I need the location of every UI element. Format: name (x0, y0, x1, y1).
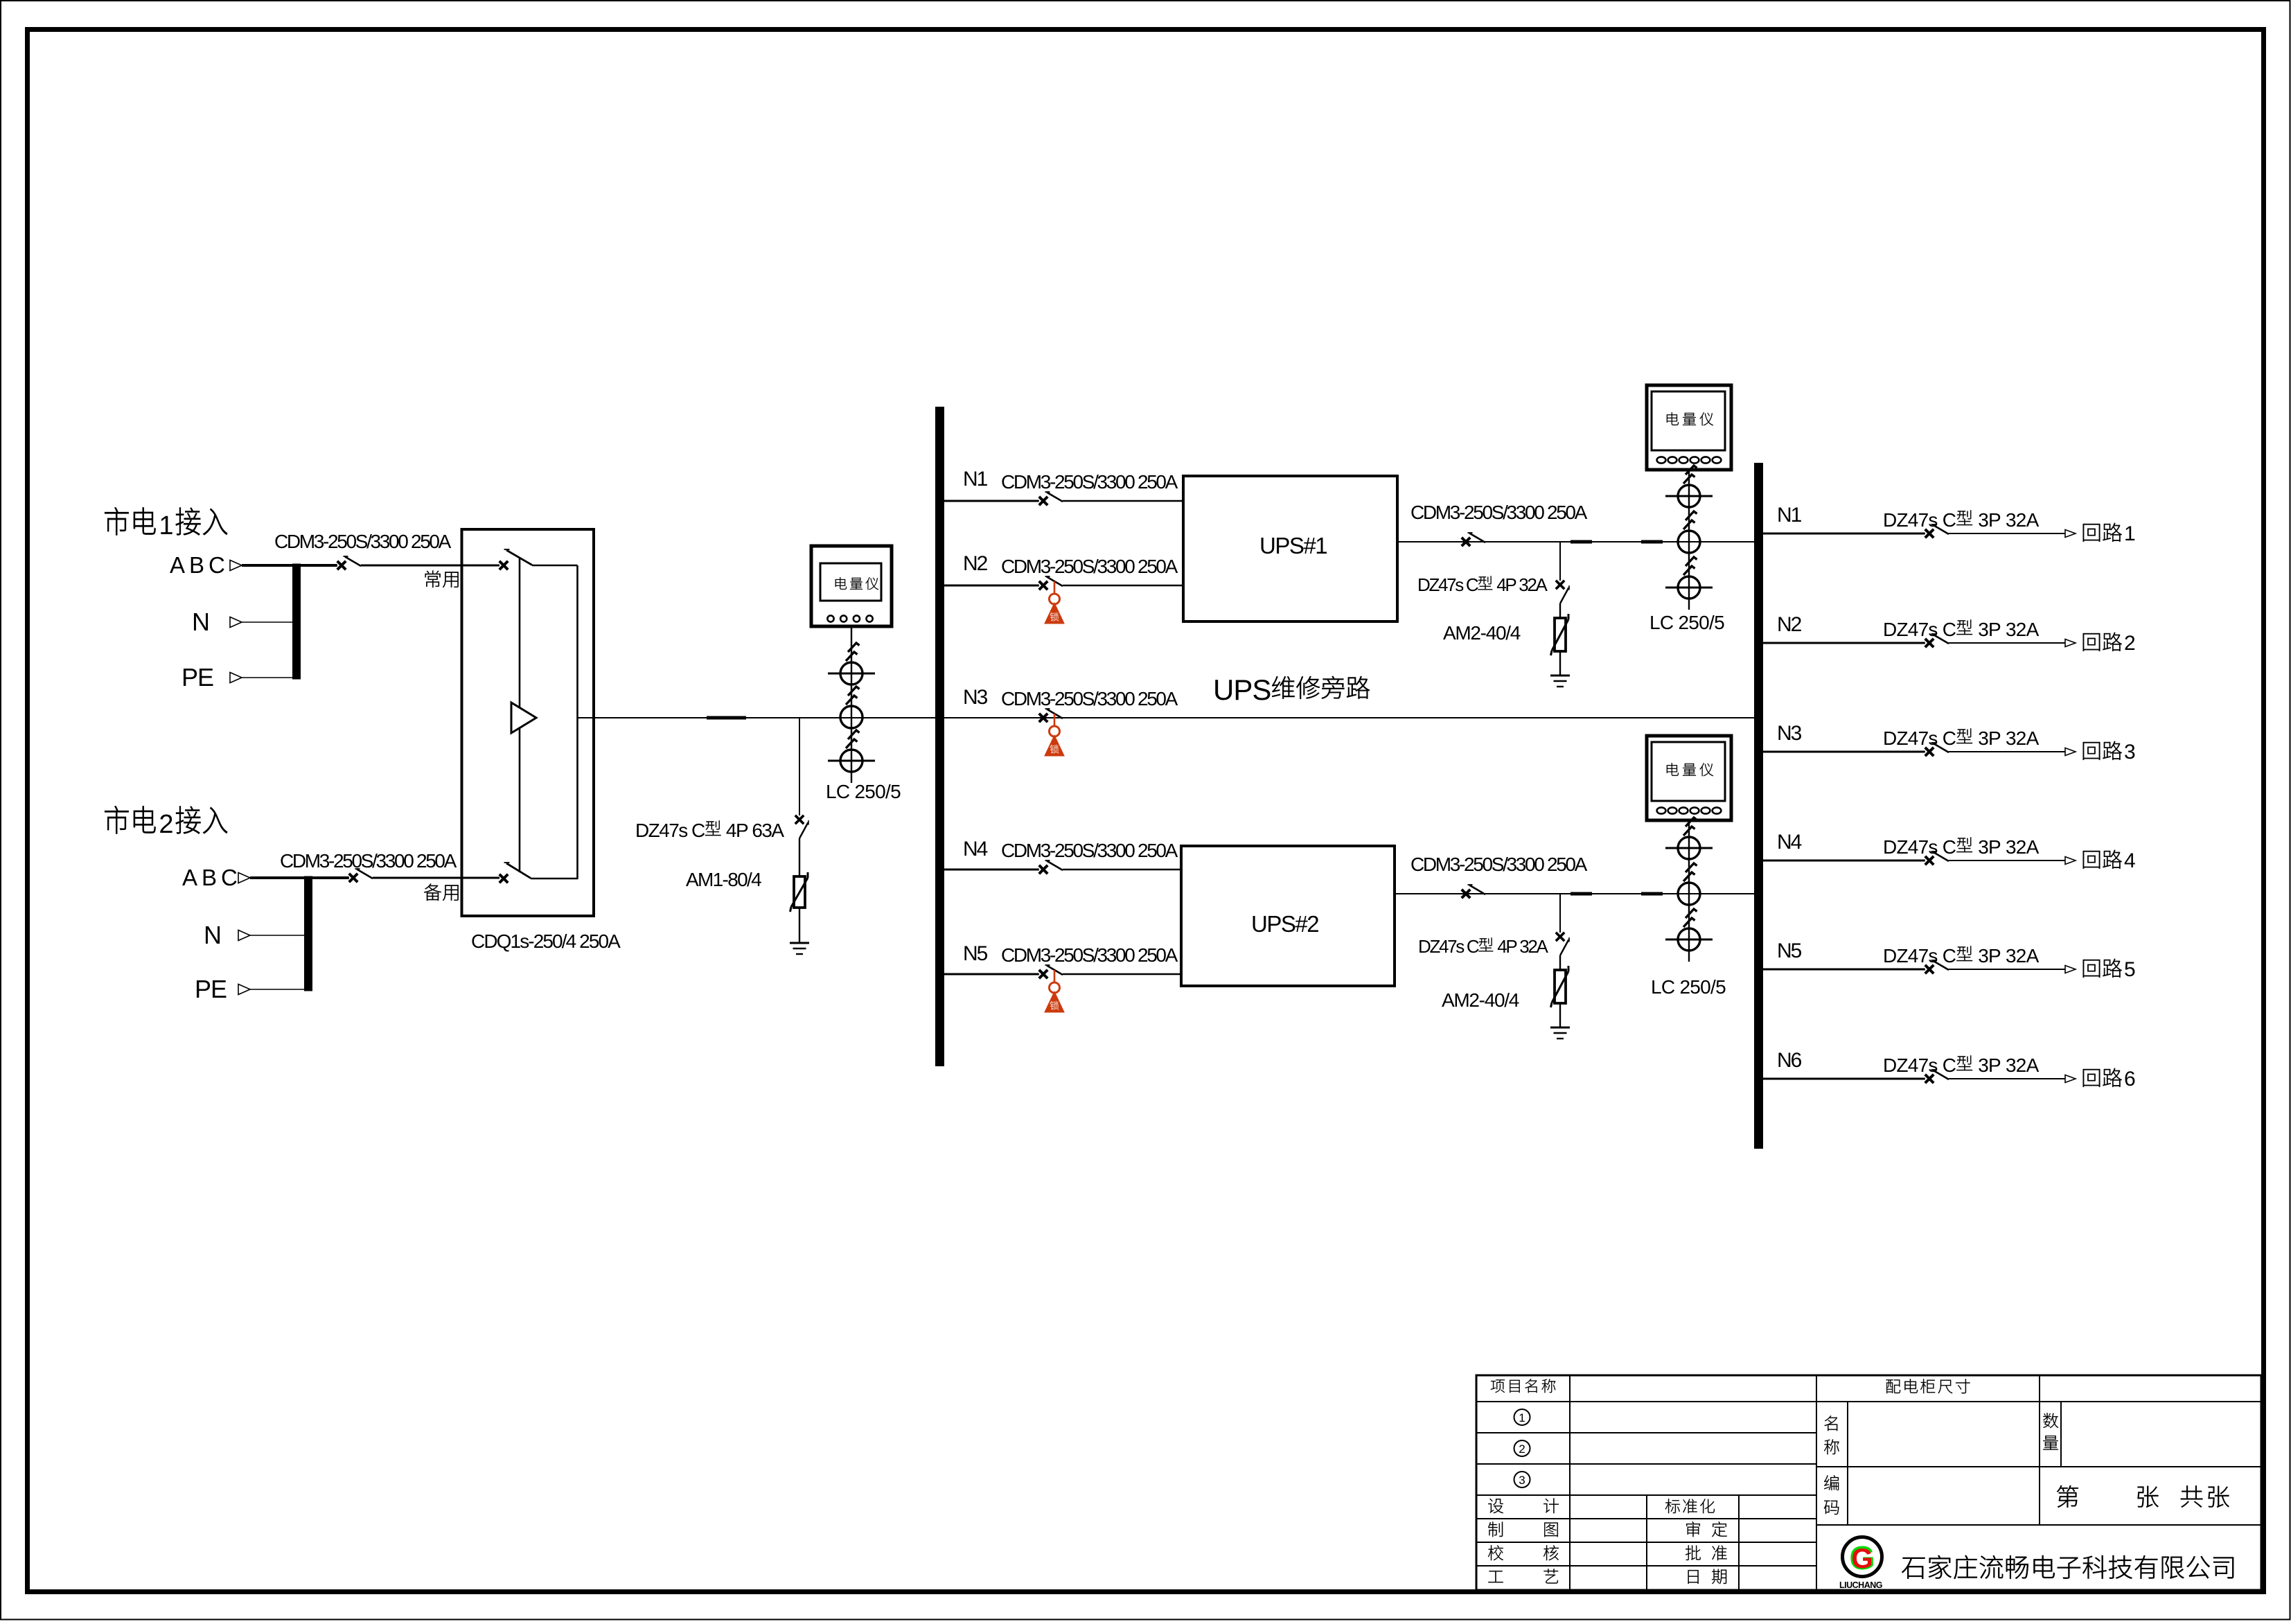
svg-text:AM2-40/4: AM2-40/4 (1443, 622, 1521, 644)
svg-text:CDM3-250S/3300 250A: CDM3-250S/3300 250A (1001, 840, 1178, 861)
svg-text:N5: N5 (1777, 939, 1802, 962)
svg-text:3P 32A: 3P 32A (1973, 727, 2039, 749)
svg-text:N5: N5 (963, 942, 988, 965)
svg-text:UPS#2: UPS#2 (1251, 911, 1318, 937)
svg-text:B: B (202, 865, 217, 890)
svg-text:N4: N4 (963, 838, 988, 860)
svg-text:3P 32A: 3P 32A (1973, 836, 2039, 858)
svg-text:UPS: UPS (1213, 673, 1271, 706)
svg-text:N1: N1 (1777, 504, 1802, 527)
svg-text:CDM3-250S/3300 250A: CDM3-250S/3300 250A (280, 850, 457, 872)
svg-text:CDQ1s-250/4 250A: CDQ1s-250/4 250A (471, 930, 621, 952)
svg-text:4P 32A: 4P 32A (1493, 574, 1548, 595)
svg-text:LC 250/5: LC 250/5 (1651, 976, 1726, 998)
svg-text:CDM3-250S/3300 250A: CDM3-250S/3300 250A (1001, 471, 1178, 493)
svg-text:N: N (204, 921, 222, 949)
svg-text:N2: N2 (963, 552, 988, 575)
svg-text:4P 63A: 4P 63A (722, 820, 785, 841)
svg-text:N: N (192, 608, 210, 636)
svg-text:AM1-80/4: AM1-80/4 (686, 869, 761, 890)
svg-text:3: 3 (2124, 741, 2136, 764)
svg-text:DZ47s C: DZ47s C (1883, 509, 1956, 531)
svg-text:G: G (1851, 1544, 1873, 1574)
svg-text:DZ47s C: DZ47s C (1883, 945, 1956, 967)
svg-text:C: C (221, 865, 238, 890)
svg-text:5: 5 (2124, 958, 2136, 981)
svg-text:DZ47s C: DZ47s C (1883, 836, 1956, 858)
svg-text:3P 32A: 3P 32A (1973, 509, 2039, 531)
svg-text:3P 32A: 3P 32A (1973, 945, 2039, 967)
svg-text:UPS#1: UPS#1 (1259, 533, 1327, 558)
svg-text:3P 32A: 3P 32A (1973, 619, 2039, 640)
svg-text:1: 1 (2124, 522, 2136, 545)
svg-text:DZ47s C: DZ47s C (1883, 727, 1956, 749)
svg-text:DZ47s C: DZ47s C (1883, 619, 1956, 640)
svg-text:3: 3 (1519, 1474, 1525, 1487)
svg-text:N6: N6 (1777, 1049, 1802, 1072)
svg-text:DZ47s C: DZ47s C (1418, 936, 1479, 957)
svg-text:CDM3-250S/3300 250A: CDM3-250S/3300 250A (274, 531, 452, 552)
svg-text:CDM3-250S/3300 250A: CDM3-250S/3300 250A (1410, 502, 1588, 523)
svg-text:6: 6 (2124, 1068, 2136, 1091)
svg-text:CDM3-250S/3300 250A: CDM3-250S/3300 250A (1001, 944, 1178, 966)
svg-text:N3: N3 (963, 686, 988, 709)
svg-text:PE: PE (195, 975, 227, 1003)
svg-text:N1: N1 (963, 468, 988, 491)
svg-text:A: A (182, 865, 197, 890)
svg-text:CDM3-250S/3300 250A: CDM3-250S/3300 250A (1001, 688, 1178, 709)
svg-text:2: 2 (2124, 632, 2136, 655)
svg-text:LIUCHANG: LIUCHANG (1839, 1580, 1882, 1590)
svg-text:2: 2 (1519, 1442, 1525, 1456)
svg-text:AM2-40/4: AM2-40/4 (1442, 989, 1519, 1011)
svg-text:PE: PE (182, 663, 213, 691)
svg-text:C: C (209, 552, 225, 578)
svg-text:A: A (170, 552, 185, 578)
svg-text:LC 250/5: LC 250/5 (826, 781, 901, 802)
svg-text:DZ47s C: DZ47s C (1883, 1054, 1956, 1076)
svg-text:4: 4 (2124, 849, 2136, 872)
svg-text:4P 32A: 4P 32A (1494, 936, 1548, 957)
svg-text:N4: N4 (1777, 831, 1802, 854)
svg-text:B: B (189, 552, 204, 578)
svg-text:LC 250/5: LC 250/5 (1649, 612, 1724, 633)
svg-text:DZ47s C: DZ47s C (635, 820, 705, 841)
svg-text:DZ47s C: DZ47s C (1417, 574, 1478, 595)
svg-text:2: 2 (159, 810, 173, 839)
svg-text:1: 1 (159, 511, 173, 540)
svg-text:3P 32A: 3P 32A (1973, 1054, 2039, 1076)
svg-text:N3: N3 (1777, 722, 1802, 745)
svg-text:CDM3-250S/3300 250A: CDM3-250S/3300 250A (1001, 556, 1178, 577)
svg-text:1: 1 (1519, 1411, 1525, 1424)
svg-text:CDM3-250S/3300 250A: CDM3-250S/3300 250A (1410, 854, 1588, 875)
svg-text:N2: N2 (1777, 613, 1802, 636)
